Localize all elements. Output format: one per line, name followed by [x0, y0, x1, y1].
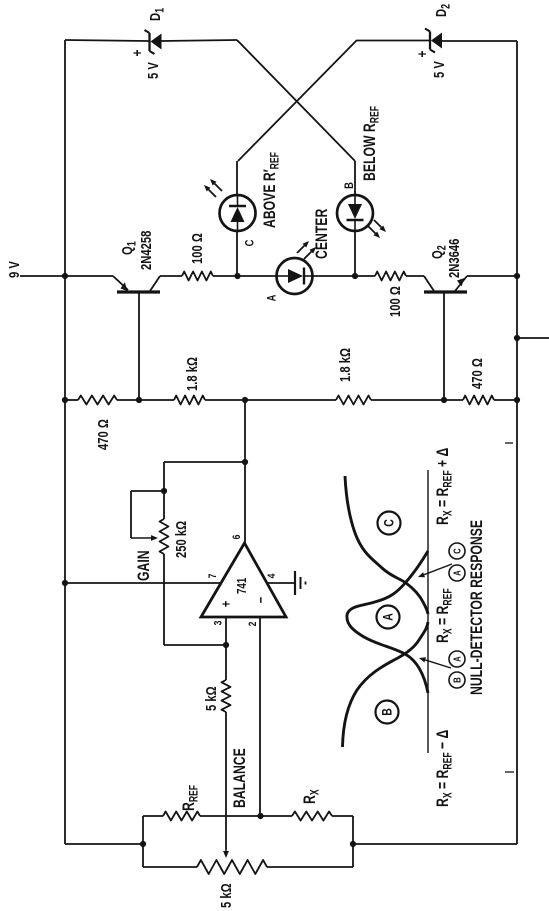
svg-text:ABOVE R′REF​: ABOVE R′REF​ [261, 152, 282, 228]
svg-text:100 Ω: 100 Ω [386, 286, 403, 317]
svg-text:+: + [414, 50, 431, 57]
wire Q2 base [443, 293, 445, 400]
svg-text:RX​: RX​ [301, 789, 322, 804]
resistor 1.8k left [174, 357, 205, 405]
label ABOVE RREF [261, 152, 282, 228]
wire diagonal D2 to LED C branch [238, 40, 357, 161]
svg-text:3: 3 [212, 620, 224, 625]
9V supply lead [5, 261, 65, 278]
svg-text:6: 6 [231, 534, 243, 539]
wire pot to pin3 node [164, 644, 226, 646]
LED C light arrows [204, 179, 222, 197]
wire bridge right edge [352, 816, 354, 867]
resistor 5k [202, 680, 230, 712]
wire top-left to D1 [65, 40, 149, 41]
LED A [277, 258, 313, 294]
node pin2 bridge [257, 813, 263, 819]
wire to LED A [238, 275, 278, 277]
svg-text:D1​: D1​ [146, 8, 166, 21]
svg-text:5 kΩ: 5 kΩ [217, 883, 234, 908]
svg-text:2N3646: 2N3646 [445, 239, 462, 278]
svg-text:RX​ = RREF​ − Δ: RX​ = RREF​ − Δ [434, 729, 455, 807]
svg-text:CENTER: CENTER [313, 208, 331, 259]
wire bridge bottom-left [143, 866, 197, 868]
svg-text:RX​ = RREF​: RX​ = RREF​ [434, 588, 455, 643]
svg-text:A: A [451, 570, 462, 576]
transistor Q2 [424, 239, 467, 292]
LED C [220, 195, 256, 231]
wire 1.8kL to node [205, 399, 245, 401]
node Q2 emitter rail [514, 273, 520, 279]
svg-text:C: C [243, 239, 256, 246]
svg-text:741: 741 [236, 577, 250, 594]
label NULL-DETECTOR RESPONSE [468, 520, 486, 695]
graph pair A C [449, 543, 465, 581]
svg-text:C: C [381, 519, 397, 527]
graph arrow to crossing AC [418, 564, 452, 577]
svg-text:B: B [379, 708, 395, 716]
wire feedback [164, 461, 245, 463]
svg-text:RREF​: RREF​ [180, 785, 201, 811]
node Q2 base [441, 397, 447, 403]
svg-text:7: 7 [207, 573, 219, 578]
LED A light arrows [297, 241, 316, 259]
svg-text:250 kΩ: 250 kΩ [172, 521, 189, 558]
node divider left rail [62, 397, 68, 403]
svg-text:BALANCE: BALANCE [231, 748, 249, 808]
node pin3 [223, 642, 229, 648]
wire bridge left edge [142, 816, 144, 867]
node LED C branch [234, 273, 240, 279]
graph curve C [345, 476, 428, 614]
wire to Q2 collector [406, 275, 424, 277]
svg-text:5 V: 5 V [144, 62, 161, 79]
svg-text:Q1​: Q1​ [118, 241, 138, 255]
potentiometer 5k [197, 860, 267, 908]
negative supply stub [514, 335, 549, 341]
label BELOW RREF [361, 106, 382, 181]
wire LED C branch [236, 161, 238, 276]
wire pin3 [225, 617, 227, 680]
label C [243, 239, 256, 246]
scan dash bottom [505, 771, 514, 773]
svg-text:1.8 kΩ: 1.8 kΩ [183, 357, 200, 391]
zener diode D1 [129, 8, 167, 79]
wire 470L to Q1 base [117, 399, 174, 401]
svg-text:100 Ω: 100 Ω [188, 233, 205, 264]
graph circled C [378, 512, 401, 535]
resistor 470ohm right [463, 358, 494, 405]
ground [295, 571, 306, 595]
resistor 470ohm left [78, 396, 117, 451]
wire output node to pin6 [244, 400, 246, 543]
label RX = RREF - delta [434, 729, 455, 807]
op-amp U1 741 [201, 534, 286, 626]
wire bridge top-left [143, 815, 163, 817]
node divider right rail [514, 397, 520, 403]
wire bridge top-right [332, 815, 353, 817]
scan dash top [505, 442, 513, 444]
svg-text:470 Ω: 470 Ω [94, 419, 111, 450]
wire D2 to corner [357, 40, 429, 42]
svg-text:9 V: 9 V [5, 261, 22, 278]
svg-text:BELOW RREF​: BELOW RREF​ [361, 106, 382, 181]
wire pin7 to rail [62, 580, 221, 586]
wire node to 1.8kR [245, 399, 336, 401]
svg-text:1.8 kΩ: 1.8 kΩ [336, 348, 353, 382]
wire LED A to LED B node [312, 275, 355, 277]
graph arrow to crossing BA [419, 657, 451, 668]
node Q1 base [136, 397, 142, 403]
resistor 1.8k right [336, 348, 371, 405]
wire D1 to corner [161, 40, 237, 41]
label B [343, 182, 356, 189]
wire right rail to D2 [442, 40, 517, 42]
svg-text:D2​: D2​ [432, 4, 452, 17]
graph curve A [347, 551, 428, 693]
wire divider left [65, 399, 78, 401]
label RX = RREF + delta [434, 447, 455, 525]
graph axis [427, 470, 429, 753]
node LED B branch [352, 273, 358, 279]
svg-text:A: A [451, 656, 462, 662]
resistor 100ohm right [375, 272, 406, 317]
wire LED B branch [354, 161, 356, 276]
LED B [337, 195, 373, 231]
label CENTER [313, 208, 331, 259]
wire to 100ohm right [355, 275, 375, 277]
svg-text:B: B [451, 677, 462, 683]
label RX = RREF [434, 588, 455, 643]
graph pair B A [449, 651, 465, 688]
svg-text:5 kΩ: 5 kΩ [202, 686, 219, 711]
potentiometer 250k GAIN [131, 462, 189, 645]
graph circled A [377, 606, 400, 629]
svg-text:A: A [265, 294, 278, 301]
LED B light arrows [368, 220, 386, 238]
label BALANCE [231, 748, 249, 808]
svg-text:GAIN: GAIN [135, 550, 153, 581]
svg-text:2N4258: 2N4258 [137, 231, 154, 270]
svg-text:5 V: 5 V [430, 61, 447, 78]
node op-amp output [242, 397, 248, 403]
transistor Q1 [113, 231, 160, 292]
svg-text:+: + [129, 49, 146, 56]
svg-text:+: + [218, 601, 233, 608]
resistor RREF [163, 785, 201, 821]
wire bridge to right rail [353, 843, 517, 845]
node bridge right [350, 841, 356, 847]
svg-text:4: 4 [266, 573, 278, 578]
wire Q1 base [138, 293, 140, 400]
resistor RX [292, 789, 332, 820]
wire 1.8kR to Q2 base [371, 399, 463, 401]
wire R3 to LED C node [213, 275, 238, 277]
svg-text:470 Ω: 470 Ω [468, 358, 485, 389]
graph curve B [343, 622, 429, 747]
wire balance [223, 712, 229, 858]
wire right rail [516, 41, 518, 844]
svg-text:RX​ = RREF​ + Δ: RX​ = RREF​ + Δ [434, 447, 455, 525]
zener diode D2 [414, 4, 453, 78]
wire Q1 collector to R3 [160, 275, 182, 277]
wire pin4 to ground [268, 582, 295, 584]
node 9V junction [62, 273, 68, 279]
svg-text:2: 2 [247, 621, 259, 626]
svg-text:B: B [343, 182, 356, 189]
wire RREF to RX [200, 815, 292, 817]
wire 470R to rail [494, 399, 517, 401]
svg-text:−: − [253, 597, 268, 604]
svg-text:C: C [451, 548, 462, 554]
wire main rail left [65, 275, 113, 277]
resistor 100ohm left [182, 233, 213, 281]
graph circled B [376, 701, 399, 724]
wire left rail (+9V) [64, 40, 66, 844]
svg-text:A: A [380, 613, 396, 621]
wire diagonal D1 to LED B branch [237, 40, 355, 161]
node bridge left [140, 841, 146, 847]
wire Q2 emitter to rail [467, 275, 517, 277]
label A [265, 294, 278, 301]
wire pin2 [259, 617, 261, 816]
node feedback junction [242, 459, 248, 465]
wire rail to bridge [65, 843, 143, 845]
svg-text:NULL-DETECTOR RESPONSE: NULL-DETECTOR RESPONSE [468, 520, 486, 695]
wire bridge bottom-right [267, 866, 353, 868]
